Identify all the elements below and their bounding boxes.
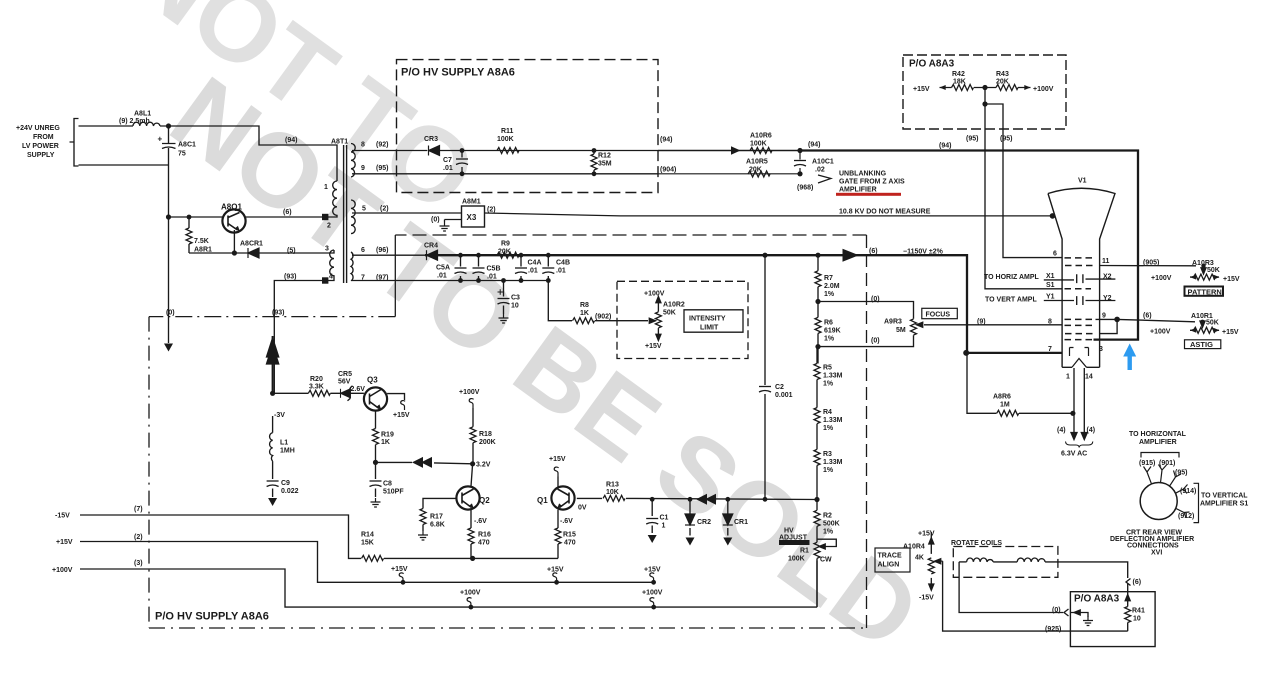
svg-text:R1: R1 — [800, 548, 809, 555]
svg-text:(914): (914) — [1180, 488, 1196, 495]
svg-text:UNBLANKING: UNBLANKING — [839, 171, 887, 178]
svg-text:+15V: +15V — [918, 531, 935, 538]
svg-text:-.6V: -.6V — [474, 518, 487, 525]
svg-text:Y2: Y2 — [1103, 295, 1112, 302]
svg-text:PATTERN: PATTERN — [1188, 288, 1222, 297]
svg-text:C4B: C4B — [556, 260, 570, 267]
svg-text:(92): (92) — [376, 142, 388, 149]
svg-text:A8L1: A8L1 — [134, 111, 151, 118]
svg-text:(4): (4) — [1087, 427, 1096, 434]
svg-text:A10R2: A10R2 — [663, 302, 685, 309]
svg-text:R41: R41 — [1132, 608, 1145, 615]
svg-text:(2): (2) — [487, 207, 496, 214]
svg-text:+24V UNREG: +24V UNREG — [16, 125, 60, 132]
svg-text:TO VERTICAL: TO VERTICAL — [1201, 493, 1248, 500]
svg-text:470: 470 — [564, 540, 576, 547]
svg-text:+15V: +15V — [547, 567, 564, 574]
svg-text:GATE FROM Z AXIS: GATE FROM Z AXIS — [839, 179, 905, 186]
svg-text:-.6V: -.6V — [560, 518, 573, 525]
svg-text:(904): (904) — [660, 167, 676, 174]
svg-text:A10R5: A10R5 — [746, 159, 768, 166]
svg-text:+100V: +100V — [642, 590, 663, 597]
svg-text:-15V: -15V — [55, 513, 70, 520]
svg-text:ASTIG: ASTIG — [1190, 340, 1213, 349]
svg-text:−1150V ±2%: −1150V ±2% — [903, 249, 944, 256]
svg-text:AMPLIFIER S1: AMPLIFIER S1 — [1200, 501, 1248, 508]
svg-text:TO HORIZ AMPL: TO HORIZ AMPL — [984, 274, 1040, 281]
svg-text:A8CR1: A8CR1 — [240, 241, 263, 248]
svg-text:5M: 5M — [896, 327, 906, 334]
svg-text:(905): (905) — [1143, 260, 1159, 267]
svg-text:+15V: +15V — [913, 86, 930, 93]
svg-text:500K: 500K — [823, 521, 840, 528]
svg-text:56V: 56V — [338, 379, 351, 386]
svg-text:P/O A8A3: P/O A8A3 — [1074, 594, 1120, 605]
svg-text:(94): (94) — [808, 142, 820, 149]
svg-text:+15V: +15V — [393, 412, 410, 419]
svg-text:100K: 100K — [497, 136, 514, 143]
svg-text:1%: 1% — [823, 381, 834, 388]
svg-text:+100V: +100V — [644, 291, 665, 298]
svg-text:R20: R20 — [310, 376, 323, 383]
svg-text:(95): (95) — [1175, 470, 1187, 477]
svg-text:ALIGN: ALIGN — [878, 562, 900, 569]
svg-text:X3: X3 — [467, 213, 477, 222]
svg-text:9: 9 — [1102, 313, 1106, 320]
svg-text:1K: 1K — [381, 439, 390, 446]
svg-text:LIMIT: LIMIT — [700, 325, 719, 332]
svg-text:(9): (9) — [977, 319, 986, 326]
svg-text:619K: 619K — [824, 328, 841, 335]
svg-text:C9: C9 — [281, 480, 290, 487]
svg-text:(3): (3) — [134, 560, 143, 567]
svg-text:50K: 50K — [1206, 320, 1219, 327]
svg-text:R16: R16 — [478, 532, 491, 539]
svg-text:+100V: +100V — [459, 389, 480, 396]
svg-text:1.33M: 1.33M — [823, 373, 843, 380]
svg-text:V1: V1 — [1078, 178, 1087, 185]
svg-text:(6): (6) — [1143, 313, 1152, 320]
svg-text:0.022: 0.022 — [281, 488, 299, 495]
svg-text:100K: 100K — [788, 556, 805, 563]
svg-text:.01: .01 — [443, 165, 453, 172]
svg-text:+15V: +15V — [1222, 329, 1239, 336]
svg-text:A10R4: A10R4 — [903, 544, 925, 551]
svg-text:0.001: 0.001 — [775, 392, 793, 399]
svg-text:R2: R2 — [823, 513, 832, 520]
svg-text:P/O HV SUPPLY A8A6: P/O HV SUPPLY A8A6 — [401, 67, 515, 79]
svg-text:A8R6: A8R6 — [993, 394, 1011, 401]
svg-text:50K: 50K — [663, 310, 676, 317]
svg-text:15K: 15K — [361, 540, 374, 547]
svg-text:(0): (0) — [871, 338, 880, 345]
svg-text:8: 8 — [361, 142, 365, 149]
svg-text:20K: 20K — [996, 79, 1009, 86]
svg-text:LV POWER: LV POWER — [22, 143, 59, 150]
svg-text:10: 10 — [511, 303, 519, 310]
svg-text:C8: C8 — [383, 481, 392, 488]
svg-text:A8T1: A8T1 — [331, 139, 348, 146]
svg-text:Y1: Y1 — [1046, 294, 1055, 301]
svg-text:INTENSITY: INTENSITY — [689, 316, 726, 323]
svg-text:.01: .01 — [437, 273, 447, 280]
svg-text:(94): (94) — [939, 143, 951, 150]
svg-text:1.33M: 1.33M — [823, 417, 843, 424]
svg-text:1%: 1% — [823, 467, 834, 474]
svg-text:6.8K: 6.8K — [430, 522, 445, 529]
svg-text:R14: R14 — [361, 532, 374, 539]
svg-text:1K: 1K — [580, 310, 589, 317]
svg-text:7.5K: 7.5K — [194, 238, 209, 245]
svg-text:.02: .02 — [815, 167, 825, 174]
svg-text:50K: 50K — [1207, 267, 1220, 274]
svg-text:8: 8 — [1048, 319, 1052, 326]
svg-text:A8R1: A8R1 — [194, 247, 212, 254]
svg-text:CW: CW — [820, 557, 832, 564]
svg-text:0V: 0V — [578, 505, 587, 512]
svg-text:1: 1 — [324, 184, 328, 191]
svg-text:ROTATE COILS: ROTATE COILS — [951, 540, 1002, 547]
svg-text:R18: R18 — [479, 431, 492, 438]
svg-text:A8Q1: A8Q1 — [221, 203, 242, 212]
svg-text:Q1: Q1 — [537, 496, 548, 505]
svg-text:+100V: +100V — [1033, 86, 1054, 93]
svg-text:(5): (5) — [287, 248, 296, 255]
svg-text:(93): (93) — [284, 274, 296, 281]
svg-text:.01: .01 — [528, 268, 538, 275]
svg-text:75: 75 — [178, 151, 186, 158]
svg-text:(94): (94) — [660, 137, 672, 144]
svg-text:R11: R11 — [501, 128, 514, 135]
svg-text:(6): (6) — [869, 248, 878, 255]
svg-text:CR5: CR5 — [338, 371, 352, 378]
svg-text:7: 7 — [361, 275, 365, 282]
svg-text:AMPLIFIER: AMPLIFIER — [839, 187, 877, 194]
svg-text:3.3K: 3.3K — [309, 384, 324, 391]
svg-text:1%: 1% — [824, 336, 835, 343]
svg-text:AMPLIFIER: AMPLIFIER — [1139, 439, 1177, 446]
svg-text:A10R3: A10R3 — [1192, 260, 1214, 267]
svg-text:14: 14 — [1085, 374, 1093, 381]
svg-text:S1: S1 — [1046, 282, 1055, 289]
svg-text:CR4: CR4 — [424, 243, 438, 250]
svg-text:5: 5 — [362, 206, 366, 213]
svg-text:1%: 1% — [823, 529, 834, 536]
svg-text:(901): (901) — [1159, 460, 1175, 467]
svg-text:R42: R42 — [952, 71, 965, 78]
svg-text:20K: 20K — [749, 167, 762, 174]
svg-text:P/O HV SUPPLY A8A6: P/O HV SUPPLY A8A6 — [155, 611, 269, 623]
svg-text:A8M1: A8M1 — [462, 199, 481, 206]
svg-text:6: 6 — [1053, 251, 1057, 258]
svg-text:2.0M: 2.0M — [824, 283, 840, 290]
svg-text:10: 10 — [1133, 616, 1141, 623]
svg-text:R17: R17 — [430, 514, 443, 521]
svg-text:3.2V: 3.2V — [476, 462, 491, 469]
svg-text:TO HORIZONTAL: TO HORIZONTAL — [1129, 431, 1187, 438]
svg-text:A10C1: A10C1 — [812, 159, 834, 166]
svg-text:C7: C7 — [443, 157, 452, 164]
svg-text:9: 9 — [361, 165, 365, 172]
svg-text:1.33M: 1.33M — [823, 459, 843, 466]
svg-text:-15V: -15V — [919, 595, 934, 602]
svg-text:C1: C1 — [660, 515, 669, 522]
svg-text:(915): (915) — [1139, 460, 1155, 467]
svg-text:X1: X1 — [1046, 273, 1055, 280]
svg-text:(97): (97) — [376, 275, 388, 282]
svg-text:1M: 1M — [1000, 402, 1010, 409]
svg-text:R4: R4 — [823, 409, 832, 416]
svg-text:(968): (968) — [797, 185, 813, 192]
svg-text:SUPPLY: SUPPLY — [27, 152, 55, 159]
svg-text:-3V: -3V — [274, 412, 285, 419]
svg-text:6: 6 — [361, 247, 365, 254]
svg-text:X2: X2 — [1103, 274, 1112, 281]
svg-text:1: 1 — [1066, 374, 1070, 381]
svg-text:(95): (95) — [966, 136, 978, 143]
svg-text:6.3V AC: 6.3V AC — [1061, 451, 1087, 458]
svg-text:(2): (2) — [134, 534, 143, 541]
svg-text:1%: 1% — [824, 291, 835, 298]
svg-text:.01: .01 — [487, 274, 497, 281]
svg-text:3: 3 — [1099, 346, 1103, 353]
svg-text:+15V: +15V — [549, 456, 566, 463]
svg-text:35M: 35M — [598, 161, 612, 168]
svg-text:(902): (902) — [595, 314, 611, 321]
svg-text:P/O A8A3: P/O A8A3 — [909, 59, 955, 70]
svg-text:(0): (0) — [166, 310, 175, 317]
svg-text:(6): (6) — [283, 209, 292, 216]
svg-text:(9) 2.5mh: (9) 2.5mh — [119, 118, 150, 125]
svg-text:FOCUS: FOCUS — [926, 312, 951, 319]
svg-text:C5A: C5A — [436, 265, 450, 272]
svg-text:ADJUST: ADJUST — [779, 535, 808, 542]
svg-text:(0): (0) — [431, 217, 440, 224]
svg-text:C3: C3 — [511, 295, 520, 302]
svg-text:A9R3: A9R3 — [884, 319, 902, 326]
svg-text:(96): (96) — [376, 247, 388, 254]
svg-text:.01: .01 — [556, 268, 566, 275]
svg-text:R9: R9 — [501, 241, 510, 248]
svg-text:R15: R15 — [563, 532, 576, 539]
svg-text:L1: L1 — [280, 440, 288, 447]
svg-text:10.8 KV DO NOT MEASURE: 10.8 KV DO NOT MEASURE — [839, 209, 931, 216]
svg-text:R3: R3 — [823, 451, 832, 458]
svg-text:TRACE: TRACE — [878, 553, 902, 560]
svg-text:(7): (7) — [134, 506, 143, 513]
svg-text:+15V: +15V — [645, 343, 662, 350]
svg-text:R5: R5 — [823, 365, 832, 372]
svg-text:R8: R8 — [580, 302, 589, 309]
svg-text:20K: 20K — [498, 249, 511, 256]
svg-text:+100V: +100V — [1150, 329, 1171, 336]
svg-text:R12: R12 — [598, 153, 611, 160]
svg-text:11: 11 — [1102, 258, 1110, 265]
svg-text:Q3: Q3 — [367, 376, 378, 385]
svg-text:+: + — [158, 135, 163, 144]
svg-text:+100V: +100V — [460, 590, 481, 597]
svg-text:HV: HV — [784, 528, 794, 535]
svg-text:4K: 4K — [915, 555, 924, 562]
svg-text:(912): (912) — [1178, 513, 1194, 520]
svg-text:(2): (2) — [380, 206, 389, 213]
svg-text:510PF: 510PF — [383, 489, 404, 496]
svg-text:+15V: +15V — [391, 566, 408, 573]
svg-text:1MH: 1MH — [280, 448, 295, 455]
svg-text:(6): (6) — [1133, 579, 1142, 586]
svg-text:2: 2 — [327, 223, 331, 230]
svg-text:R13: R13 — [606, 482, 619, 489]
svg-text:(95): (95) — [376, 165, 388, 172]
svg-text:R6: R6 — [824, 320, 833, 327]
svg-text:(0): (0) — [1052, 607, 1061, 614]
svg-text:200K: 200K — [479, 439, 496, 446]
svg-text:+100V: +100V — [52, 567, 73, 574]
svg-text:R43: R43 — [996, 71, 1009, 78]
svg-text:1%: 1% — [823, 425, 834, 432]
svg-text:CR3: CR3 — [424, 136, 438, 143]
svg-text:470: 470 — [478, 540, 490, 547]
svg-text:1: 1 — [662, 523, 666, 530]
svg-text:XVI: XVI — [1151, 550, 1162, 557]
svg-text:C4A: C4A — [528, 260, 542, 267]
svg-text:+15V: +15V — [1223, 276, 1240, 283]
svg-text:R19: R19 — [381, 432, 394, 439]
svg-text:(925): (925) — [1045, 626, 1061, 633]
svg-text:A10R6: A10R6 — [750, 133, 772, 140]
svg-text:CONNECTIONS: CONNECTIONS — [1127, 543, 1179, 550]
svg-text:(4): (4) — [1057, 427, 1066, 434]
svg-text:(94): (94) — [285, 137, 297, 144]
svg-text:3: 3 — [325, 246, 329, 253]
svg-text:CR1: CR1 — [734, 519, 748, 526]
svg-text:CR2: CR2 — [697, 519, 711, 526]
svg-text:100K: 100K — [750, 141, 767, 148]
svg-text:2.6V: 2.6V — [351, 386, 366, 393]
svg-text:+15V: +15V — [56, 539, 73, 546]
svg-text:+100V: +100V — [1151, 275, 1172, 282]
svg-text:TO VERT AMPL: TO VERT AMPL — [985, 297, 1037, 304]
svg-text:+15V: +15V — [644, 567, 661, 574]
svg-text:(95): (95) — [1000, 136, 1012, 143]
svg-text:(93): (93) — [272, 310, 284, 317]
svg-text:18K: 18K — [953, 79, 966, 86]
svg-text:(0): (0) — [871, 296, 880, 303]
svg-text:4: 4 — [329, 274, 333, 281]
svg-text:10K: 10K — [606, 489, 619, 496]
svg-text:C5B: C5B — [487, 266, 501, 273]
svg-text:7: 7 — [1048, 346, 1052, 353]
svg-text:Q2: Q2 — [479, 496, 490, 505]
svg-text:FROM: FROM — [33, 134, 54, 141]
svg-text:A8C1: A8C1 — [178, 142, 196, 149]
svg-text:C2: C2 — [775, 384, 784, 391]
svg-text:R7: R7 — [824, 275, 833, 282]
